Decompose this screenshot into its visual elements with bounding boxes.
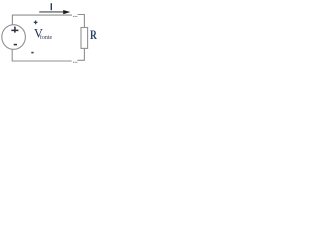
wire resistor bottom lead to bottom-right corner bbox=[77, 49, 84, 61]
polarity minus inside source bbox=[14, 44, 17, 46]
wire top dotted break bbox=[73, 16, 74, 17]
node plus terminal mark (outside) bbox=[34, 21, 38, 25]
wire top-right segment into corner and down to resistor bbox=[78, 15, 85, 28]
current arrow shaft (I annotation) bbox=[39, 11, 64, 13]
node minus terminal mark (outside) bbox=[31, 52, 33, 54]
polarity plus inside source bbox=[11, 27, 18, 33]
voltage source V_fonte (circle) bbox=[2, 25, 26, 50]
wire bottom dotted break bbox=[73, 62, 74, 63]
label I bbox=[51, 3, 52, 10]
wire top-left: source top lead and top wire bbox=[12, 15, 72, 25]
svg-text:fonte: fonte bbox=[40, 34, 53, 41]
resistor R (box) bbox=[81, 28, 88, 49]
svg-text:R: R bbox=[90, 27, 97, 42]
current arrow head bbox=[63, 10, 70, 14]
wire bottom-left: bottom wire and source bottom lead bbox=[12, 49, 71, 61]
